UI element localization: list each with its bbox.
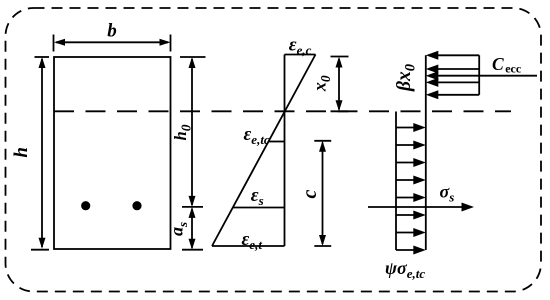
label epsilon s bbox=[251, 185, 264, 208]
strain diagram bottom edge bbox=[212, 245, 285, 247]
strain diagram slanted line bbox=[212, 55, 316, 247]
label beta x0 bbox=[394, 64, 419, 92]
stress diagram main vertical line bbox=[425, 55, 427, 250]
compression stress block right edge bbox=[478, 55, 480, 95]
dimension h (total height) bbox=[31, 57, 49, 250]
svg-text:βx0: βx0 bbox=[394, 64, 419, 92]
strain tick at cracking strain level bbox=[269, 141, 285, 143]
svg-text:εs: εs bbox=[251, 185, 264, 208]
dimension c (crack-zone depth) bbox=[314, 141, 331, 246]
label x0 bbox=[310, 75, 334, 92]
tension arrow 7 bbox=[396, 228, 426, 237]
label h bbox=[11, 147, 32, 158]
svg-text:εe,t: εe,t bbox=[242, 229, 263, 252]
tension arrow 5 bbox=[396, 193, 426, 202]
label h0 bbox=[171, 124, 194, 140]
svg-text:σs: σs bbox=[440, 182, 455, 205]
rebar dot right bbox=[132, 201, 141, 210]
tension arrow 2 bbox=[396, 141, 426, 150]
neutral axis dashed line bbox=[54, 110, 511, 112]
svg-text:εe,c: εe,c bbox=[289, 34, 312, 57]
tension arrow 3 bbox=[396, 158, 426, 167]
svg-text:Cecc: Cecc bbox=[492, 54, 522, 76]
tension arrow 4 bbox=[396, 176, 426, 185]
tension arrow 1 bbox=[396, 123, 426, 132]
dimension x0 (neutral axis depth) bbox=[331, 57, 349, 112]
compression arrow 4 bbox=[426, 78, 479, 87]
label c bbox=[299, 189, 321, 198]
tension arrow 6 bbox=[396, 211, 426, 220]
label C_ecc bbox=[492, 54, 522, 76]
label epsilon e,t bbox=[242, 229, 263, 252]
label sigma_s bbox=[440, 182, 455, 205]
label b bbox=[107, 21, 117, 42]
dimension as (cover to steel centroid) bbox=[182, 207, 203, 250]
tension stress block left edge bbox=[395, 112, 397, 251]
svg-text:c: c bbox=[299, 189, 321, 198]
svg-text:x0: x0 bbox=[310, 75, 334, 92]
strain diagram vertical axis bbox=[284, 55, 286, 247]
compression arrow 1 (top edge) bbox=[426, 51, 479, 60]
beam cross-section rectangle bbox=[54, 57, 171, 249]
svg-text:εe,tc: εe,tc bbox=[244, 124, 270, 147]
compression resultant arrow C_ecc bbox=[426, 71, 537, 80]
compression arrow 2 bbox=[426, 65, 479, 74]
label epsilon e,c bbox=[289, 34, 312, 57]
steel stress arrow sigma_s bbox=[368, 203, 474, 212]
label epsilon e,tc bbox=[244, 124, 270, 147]
tension arrow 8 (bottom edge) bbox=[396, 246, 426, 255]
svg-text:h0: h0 bbox=[171, 124, 194, 140]
svg-text:h: h bbox=[11, 147, 32, 158]
rebar dot left bbox=[81, 201, 90, 210]
compression arrow 5 (bottom edge) bbox=[426, 90, 479, 99]
strain diagram top edge bbox=[285, 54, 316, 56]
svg-text:ψσe,tc: ψσe,tc bbox=[385, 258, 425, 281]
dimension h0 (effective depth) bbox=[180, 57, 206, 207]
strain tick at steel level bbox=[233, 207, 285, 209]
svg-text:b: b bbox=[107, 21, 117, 42]
label as bbox=[167, 222, 191, 236]
dimension b (width of section) bbox=[54, 35, 171, 52]
label psi sigma e,tc bbox=[385, 258, 425, 281]
